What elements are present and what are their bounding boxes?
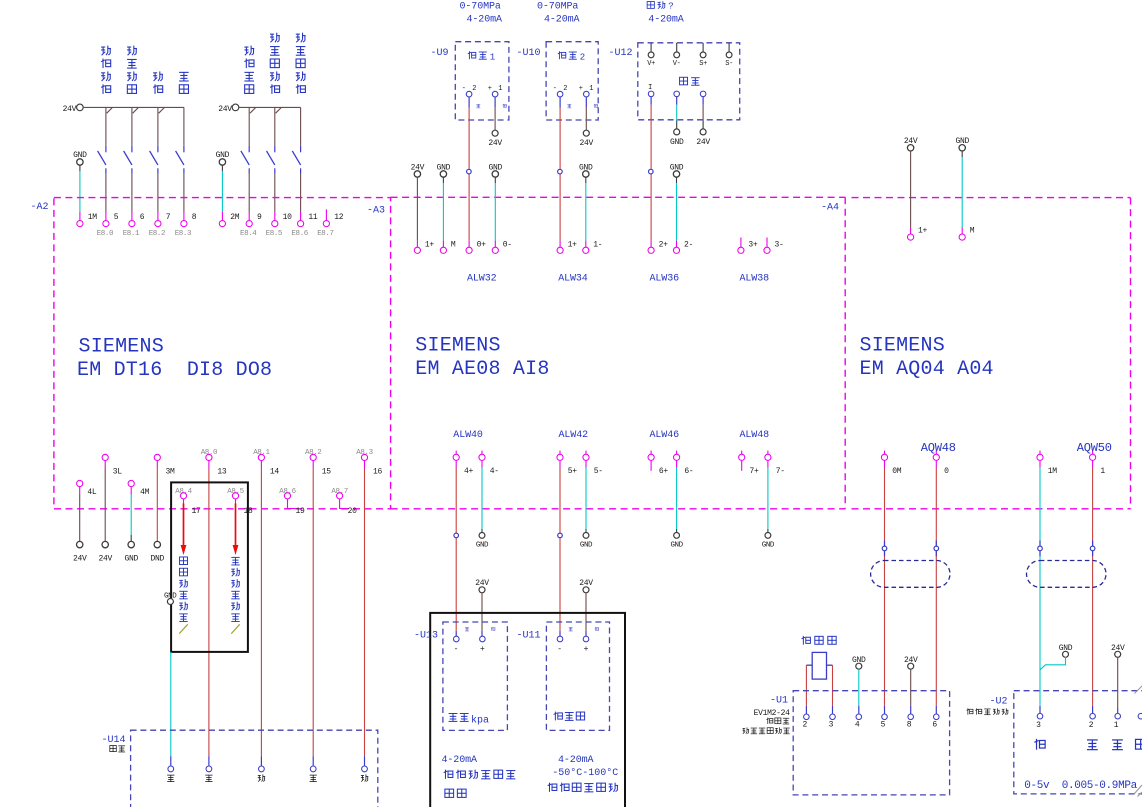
svg-text:E8.0: E8.0 [97, 230, 114, 238]
range text "量程? 4-20mA" [647, 1, 684, 25]
lamp terminal 红 [205, 766, 212, 782]
GND source with wire to 0- [489, 163, 503, 247]
svg-text:1: 1 [490, 53, 495, 63]
terminal 7+ [739, 451, 759, 477]
node on 4+ wire [454, 533, 459, 538]
net label ALW46 [650, 430, 680, 441]
terminal 6- [674, 451, 694, 477]
wire U12 to GND [670, 97, 684, 147]
svg-text:3L: 3L [113, 468, 123, 477]
svg-text:7+: 7+ [750, 467, 760, 476]
svg-text:24V: 24V [580, 139, 594, 148]
terminal 5 [103, 213, 119, 227]
svg-text:7-: 7- [776, 467, 785, 476]
range text "0-70MPa 4-20mA" [537, 1, 580, 25]
terminal 3M with wire to DND [151, 454, 175, 563]
svg-text:2: 2 [580, 53, 585, 63]
svg-text:ALW32: ALW32 [467, 273, 497, 284]
svg-text:6: 6 [932, 721, 937, 730]
svg-text:ALW34: ALW34 [558, 273, 588, 284]
terminal 1+ [908, 227, 928, 241]
GND source with wire to M terminal [955, 137, 969, 234]
svg-text:5: 5 [881, 721, 886, 730]
terminal A8.7 / 20 [331, 488, 357, 516]
terminal 12 stub [325, 209, 327, 220]
svg-text:E8.5: E8.5 [266, 230, 283, 238]
svg-text:1M: 1M [1048, 467, 1058, 476]
svg-text:6+: 6+ [659, 467, 669, 476]
U12 pin V- [673, 43, 681, 68]
svg-text:13: 13 [217, 468, 227, 477]
note "4-20mA -50C-100C 检测油箱温度" [548, 755, 619, 792]
terminal 2- [673, 240, 693, 253]
sensor box -U9 油压1 [431, 42, 509, 120]
GND source with wire to 1- [579, 163, 593, 247]
label "油温度" [554, 712, 585, 721]
svg-text:3: 3 [829, 721, 834, 730]
U1 pin 6 [932, 714, 939, 730]
24V bus wire [239, 107, 301, 113]
svg-text:6-: 6- [684, 467, 693, 476]
svg-text:4L: 4L [87, 488, 97, 497]
terminal 1M with wire [1037, 451, 1057, 714]
terminal 3+ [738, 238, 758, 254]
svg-text:-A2: -A2 [31, 202, 49, 213]
svg-text:DND: DND [151, 555, 165, 564]
svg-text:-: - [557, 645, 562, 654]
svg-text:4: 4 [855, 721, 860, 730]
ground GND 1 with wire to 1M [73, 151, 87, 220]
switch label "双手启动右" [296, 33, 306, 94]
terminal 11 [298, 213, 318, 227]
label "气压kpa" [449, 713, 489, 726]
svg-text:ALW36: ALW36 [650, 273, 680, 284]
terminal A8.2 / 15 with wire to tower light [305, 449, 331, 766]
24V bus wire [83, 107, 184, 113]
net label ALW34 [558, 273, 588, 284]
svg-text:24V: 24V [63, 105, 77, 114]
svg-text:2: 2 [1089, 721, 1094, 730]
24V source to U11 plus [579, 579, 593, 636]
note "EV1M2-24 溢流阀 比例阀放大器" [743, 709, 791, 734]
svg-text:4-20mA: 4-20mA [648, 14, 684, 25]
svg-text:0+: 0+ [477, 240, 487, 249]
node on 0+ wire [467, 169, 472, 174]
signal arrow A8.4 [181, 504, 187, 556]
svg-text:SIEMENS: SIEMENS [79, 336, 164, 359]
svg-text:6: 6 [140, 213, 145, 222]
net label ALW42 [559, 430, 589, 441]
svg-text:SIEMENS: SIEMENS [860, 335, 945, 358]
U12 pin V+ [647, 43, 655, 68]
sensor box -U10 油压2 [517, 42, 599, 120]
svg-text:AQW50: AQW50 [1077, 441, 1112, 455]
terminal 9 [246, 213, 262, 227]
svg-text:EM AQ04 A04: EM AQ04 A04 [860, 358, 994, 381]
cable shield symbol AQW48 [871, 561, 950, 588]
svg-text:2: 2 [802, 721, 807, 730]
svg-text:EM AE08 AI8: EM AE08 AI8 [415, 358, 549, 381]
terminal 1 with wire [1090, 451, 1106, 714]
terminal 4M with wire to GND [124, 480, 149, 563]
GND source to U1 pin 4 [852, 656, 866, 714]
svg-text:2+: 2+ [659, 240, 669, 249]
svg-text:5+: 5+ [568, 467, 578, 476]
svg-text:E8.6: E8.6 [291, 230, 308, 238]
net label ALW36 [650, 273, 680, 284]
signal arrow A8.5 [233, 504, 239, 556]
U9 wire color marks [476, 104, 506, 108]
svg-text:E8.7: E8.7 [317, 230, 333, 238]
terminal A8.1 / 14 with wire to tower light [253, 449, 279, 766]
svg-text:ALW38: ALW38 [740, 273, 770, 284]
valve amplifier box -U1 [770, 691, 950, 795]
net label E8.3 [175, 230, 192, 238]
svg-text:3+: 3+ [748, 240, 758, 249]
wire U9 to terminal 0+ [468, 97, 470, 247]
svg-text:1+: 1+ [568, 240, 578, 249]
U10 pin + 1 [579, 85, 595, 97]
24V source to U1 pin 8 [904, 656, 918, 714]
module text SIEMENS EM AQ04 A04 [860, 335, 994, 381]
svg-text:1+: 1+ [425, 240, 435, 249]
wire 7- to GND [762, 460, 775, 549]
proportional valve box -U2 [990, 691, 1142, 794]
switch label "停止" [179, 72, 189, 93]
svg-text:1+: 1+ [918, 227, 928, 236]
label -A3 [367, 206, 385, 217]
terminal 2+ [648, 240, 668, 253]
svg-text:V-: V- [673, 60, 681, 68]
terminal 0+ [466, 240, 486, 253]
wire 4+ to U13 minus [455, 460, 457, 636]
svg-text:14: 14 [270, 468, 280, 477]
24V source to U13 plus [475, 579, 489, 636]
wire 5- to GND [580, 460, 593, 549]
svg-text:0: 0 [944, 467, 949, 476]
U1 pin 3 [829, 714, 836, 730]
module box -A4 [852, 198, 1131, 509]
svg-text:-A4: -A4 [821, 202, 839, 213]
24V source circle [218, 104, 239, 114]
svg-text:1: 1 [1100, 467, 1105, 476]
terminal 4L with wire to 24V [73, 480, 97, 563]
switch contacts group 2 [241, 107, 301, 220]
svg-text:4-: 4- [490, 467, 499, 476]
node on 0 wire [934, 541, 939, 557]
svg-text:E8.4: E8.4 [240, 230, 257, 238]
lamp terminal 灰 [167, 766, 174, 782]
svg-text:0-70MPa: 0-70MPa [460, 1, 501, 12]
svg-text:4-20mA: 4-20mA [558, 755, 594, 766]
U11 wire color marks [569, 627, 599, 631]
svg-text:AQW48: AQW48 [921, 441, 956, 455]
svg-text:+: + [480, 645, 485, 654]
svg-text:ALW48: ALW48 [740, 430, 770, 441]
note "4-20mA 检测气罐压力 公用" [442, 755, 516, 797]
svg-text:-U9: -U9 [431, 48, 449, 59]
label "油压1" [468, 51, 495, 62]
lamp terminal 绿 [310, 766, 317, 782]
label "拉力" [680, 77, 700, 85]
svg-text:4-20mA: 4-20mA [467, 14, 503, 25]
node on 1M wire [1038, 541, 1043, 557]
solenoid wires to U1 pins 2 3 [806, 665, 832, 714]
terminal 2M [219, 213, 239, 227]
U12 pin I [648, 84, 654, 97]
node on 1 wire [1090, 541, 1095, 557]
terminal 0M with wire [881, 451, 901, 714]
svg-text:3-: 3- [775, 240, 784, 249]
terminal 6+ [648, 451, 668, 477]
svg-text:0-70MPa: 0-70MPa [537, 1, 578, 12]
wire U10 to terminal 1+ [559, 97, 561, 247]
node on 5+ wire [558, 533, 563, 538]
svg-text:5-: 5- [594, 467, 603, 476]
net label E8.6 [291, 230, 308, 238]
terminal A8.4 / 17 [175, 488, 201, 516]
signal name "/公共设备启用" (rotated) [231, 557, 240, 633]
note "电气比例阀" [967, 708, 1009, 714]
wire U10 to 24V [580, 97, 594, 148]
sensor box -U11 油温度 [517, 622, 610, 730]
svg-text:2M: 2M [230, 213, 240, 222]
terminal 1- [583, 240, 603, 253]
label -A4 [821, 202, 839, 213]
U2 pin 3 蓝 [1034, 713, 1045, 749]
range note "0-5v 0.005-0.9MPa" [1024, 780, 1137, 792]
terminal 0 with wire [933, 451, 949, 714]
GND source with jog wire [1040, 644, 1073, 670]
terminal A8.3 / 16 with wire to tower light [356, 449, 382, 766]
U13 pin - [454, 636, 460, 654]
svg-text:?: ? [668, 2, 673, 12]
wire U9 to 24V [488, 97, 502, 148]
switch contacts group 1 [98, 107, 184, 220]
solenoid coil symbol [806, 652, 832, 679]
net label E8.1 [123, 230, 140, 238]
signal name "/公共设备就绪" (rotated) [179, 557, 188, 634]
U2 pin 1 棕 [1112, 713, 1123, 749]
svg-text:GND: GND [670, 541, 683, 549]
U11 pin + [583, 636, 589, 654]
terminal 3L with wire to 24V [98, 454, 122, 563]
terminal A8.6 / 19 [279, 488, 305, 516]
svg-text:1M: 1M [88, 213, 98, 222]
svg-text:SIEMENS: SIEMENS [415, 335, 500, 358]
node on 1+ wire [558, 169, 563, 174]
terminal A8.5 / 18 [227, 488, 253, 516]
svg-text:E8.2: E8.2 [149, 230, 165, 238]
net label ALW48 [740, 430, 770, 441]
net label E8.5 [266, 230, 283, 238]
svg-text:15: 15 [322, 468, 332, 477]
24V source with wire to 1+ terminal [904, 137, 918, 234]
module box -A2 [54, 198, 391, 509]
svg-text:4M: 4M [140, 488, 150, 497]
svg-text:I: I [648, 84, 652, 92]
terminal 4+ [453, 451, 473, 477]
U13 wire color marks [465, 627, 495, 631]
svg-text:10: 10 [283, 213, 293, 222]
terminal 7- [765, 451, 785, 477]
svg-text:8: 8 [192, 213, 197, 222]
svg-text:GND: GND [670, 138, 684, 147]
svg-text:-U1: -U1 [770, 696, 788, 707]
svg-text:2-: 2- [684, 240, 693, 249]
U1 pin 4 [855, 714, 862, 730]
switch label "操作急停" [244, 46, 254, 94]
terminal 5- [583, 451, 603, 477]
svg-text:0-5v 0.005-0.9MPa: 0-5v 0.005-0.9MPa [1024, 780, 1137, 792]
wire 4- to GND [476, 460, 489, 549]
terminal 12 [323, 213, 343, 227]
terminal 3- [764, 238, 784, 254]
svg-text:ALW46: ALW46 [650, 430, 680, 441]
svg-text:ALW42: ALW42 [559, 430, 589, 441]
sensor box -U12 拉力 [609, 43, 740, 120]
U1 pin 2 [802, 714, 809, 730]
switch label "面板急停" [101, 46, 111, 94]
terminal 5+ [557, 451, 577, 477]
net label E8.7 [317, 230, 333, 238]
svg-text:19: 19 [296, 507, 306, 516]
terminal 7 [155, 213, 171, 227]
svg-text:0M: 0M [892, 467, 902, 476]
terminal 1M [77, 213, 97, 227]
svg-text:5: 5 [114, 213, 119, 222]
svg-text:kpa: kpa [471, 715, 489, 727]
interface black box with GND [164, 482, 248, 652]
svg-text:S-: S- [725, 60, 733, 68]
terminal M [959, 227, 975, 241]
U9 pin - 2 [462, 85, 478, 97]
switch label "双手启动左" [270, 33, 280, 94]
net label ALW32 [467, 273, 497, 284]
svg-text:-U13: -U13 [414, 631, 438, 642]
net label AQW50 [1077, 441, 1112, 455]
svg-text:8: 8 [907, 721, 912, 730]
svg-text:1: 1 [1114, 721, 1119, 730]
terminal M [440, 240, 456, 253]
svg-text:GND: GND [580, 541, 593, 549]
terminal 1+ [557, 240, 577, 253]
U12 pin 24V side [700, 91, 706, 97]
range text "0-70MPa 4-20mA" [460, 1, 503, 25]
svg-text:GND: GND [762, 541, 775, 549]
svg-text:4-20mA: 4-20mA [442, 755, 478, 766]
svg-text:-U14: -U14 [102, 735, 126, 746]
svg-text:16: 16 [373, 468, 383, 477]
svg-text:M: M [451, 240, 456, 249]
switch label "启动" [153, 71, 163, 94]
net label E8.2 [149, 230, 165, 238]
svg-text:S+: S+ [699, 60, 707, 68]
svg-text:M: M [970, 227, 975, 236]
svg-text:GND: GND [476, 541, 489, 549]
terminal 6 [129, 213, 145, 227]
svg-text:EV1M2-24: EV1M2-24 [754, 709, 791, 718]
U12 pin S- [725, 43, 733, 68]
terminal A8.0 / 13 with wire to tower light [201, 449, 227, 766]
wire U12 to 24V [696, 97, 710, 147]
terminal 10 [272, 213, 292, 227]
svg-text:24V: 24V [488, 139, 502, 148]
U10 pin - 2 [553, 85, 569, 97]
svg-text:ALW40: ALW40 [453, 430, 483, 441]
svg-text:3M: 3M [166, 468, 176, 477]
svg-text:V+: V+ [647, 60, 655, 68]
U12 pin GND side [674, 91, 680, 97]
terminal 4- [479, 451, 499, 477]
sensor black box [430, 613, 625, 807]
svg-text:-U2: -U2 [990, 696, 1008, 707]
wire 6- to GND [670, 460, 683, 549]
node on 2+ wire [649, 169, 654, 174]
node on 0M wire [882, 541, 887, 557]
U2 pin 2 白 [1087, 713, 1098, 749]
svg-text:24V: 24V [218, 105, 232, 114]
tower light box -U14 [102, 730, 378, 807]
svg-text:4-20mA: 4-20mA [544, 14, 580, 25]
GND source with wire to M [437, 163, 451, 247]
module text SIEMENS EM DT16 DI8 DO8 [77, 336, 272, 382]
svg-text:-: - [454, 645, 459, 654]
24V source with wire to 1+ [411, 163, 425, 247]
svg-text:1-: 1- [593, 240, 602, 249]
ground GND 2 with wire to 2M [216, 151, 230, 220]
net label AQW48 [921, 441, 956, 455]
wire 5+ to U11 minus [559, 460, 561, 636]
svg-text:3: 3 [1036, 721, 1041, 730]
U11 pin - [557, 636, 563, 654]
U1 pin 5 [881, 714, 888, 730]
svg-text:-U10: -U10 [517, 48, 541, 59]
net label ALW38 [740, 273, 770, 284]
svg-text:-U11: -U11 [517, 631, 541, 642]
sheet break marks [1135, 686, 1142, 797]
net label E8.4 [240, 230, 257, 238]
svg-text:-U12: -U12 [609, 48, 633, 59]
U1 pin 8 [907, 714, 914, 730]
module text SIEMENS EM AE08 AI8 [415, 335, 549, 381]
cable shield symbol AQW50 [1027, 561, 1107, 588]
svg-text:11: 11 [308, 213, 318, 222]
U13 pin + [480, 636, 486, 654]
terminal 8 [181, 213, 197, 227]
svg-text:0-: 0- [503, 240, 512, 249]
svg-text:E8.3: E8.3 [175, 230, 192, 238]
svg-text:7: 7 [166, 213, 171, 222]
label -A2 [31, 202, 49, 213]
label "塔灯" [110, 745, 125, 751]
switch label "自动模式" [127, 46, 137, 94]
svg-text:-50°C-100°C: -50°C-100°C [552, 767, 618, 779]
svg-text:-A3: -A3 [367, 206, 385, 217]
net label ALW40 [453, 430, 483, 441]
GND source with wire to 2- [670, 163, 684, 247]
24V source to U2 pin 1 [1111, 644, 1125, 714]
lamp terminal 黄 [258, 766, 265, 782]
svg-text:24V: 24V [696, 138, 710, 147]
svg-text:9: 9 [257, 213, 262, 222]
wire gray to tower light [170, 652, 172, 766]
svg-text:24V: 24V [98, 555, 112, 564]
U9 pin + 1 [488, 85, 504, 97]
svg-text:24V: 24V [73, 555, 87, 564]
terminal 1+ [414, 240, 434, 253]
svg-text:EM DT16 DI8 DO8: EM DT16 DI8 DO8 [77, 359, 272, 382]
